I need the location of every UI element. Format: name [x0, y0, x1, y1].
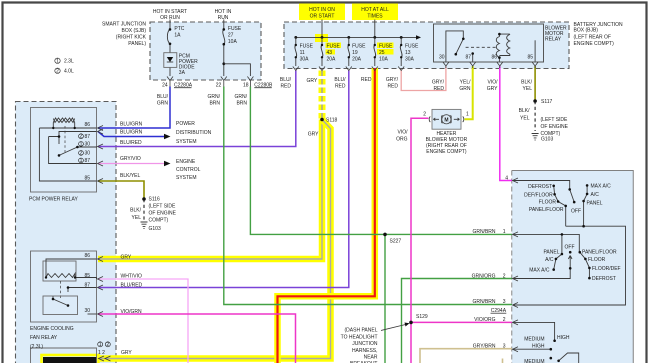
svg-text:BRN: BRN: [209, 101, 220, 107]
svg-text:GRY: GRY: [307, 78, 318, 84]
svg-text:3: 3: [503, 344, 506, 350]
svg-text:YEL: YEL: [520, 116, 530, 122]
svg-text:PTC: PTC: [174, 26, 184, 32]
svg-text:GRY/: GRY/: [432, 80, 445, 86]
svg-text:FUSE: FUSE: [327, 44, 341, 50]
svg-text:FAN RELAY: FAN RELAY: [30, 335, 58, 341]
svg-text:1: 1: [80, 158, 83, 164]
svg-text:G103: G103: [541, 137, 553, 143]
svg-text:1: 1: [99, 342, 102, 348]
svg-text:2: 2: [423, 112, 426, 118]
svg-text:FLOOR: FLOOR: [588, 257, 606, 263]
svg-text:GRN/BRN: GRN/BRN: [472, 299, 495, 305]
svg-text:BLK/YEL: BLK/YEL: [120, 173, 141, 179]
svg-text:HARNESS,: HARNESS,: [352, 348, 378, 354]
svg-text:GRY: GRY: [121, 350, 132, 356]
svg-text:WHT/VIO: WHT/VIO: [121, 274, 142, 280]
svg-text:PANEL: PANEL: [587, 201, 603, 207]
svg-text:GRN/: GRN/: [208, 94, 221, 100]
svg-text:YEL: YEL: [132, 215, 142, 221]
svg-text:HOT IN ON: HOT IN ON: [309, 7, 335, 13]
svg-text:85: 85: [84, 176, 90, 182]
svg-text:85: 85: [84, 273, 90, 279]
svg-text:87: 87: [84, 283, 90, 289]
svg-text:GRY/VIO: GRY/VIO: [120, 156, 141, 162]
svg-text:FUSE: FUSE: [300, 44, 314, 50]
svg-text:RED: RED: [433, 86, 444, 92]
svg-text:2: 2: [106, 342, 109, 348]
svg-text:VIO/: VIO/: [397, 130, 408, 136]
svg-text:FUSE: FUSE: [379, 44, 393, 50]
svg-text:3: 3: [503, 299, 506, 305]
svg-text:(LEFT SIDE: (LEFT SIDE: [149, 204, 177, 210]
svg-text:19: 19: [352, 50, 358, 56]
svg-text:30: 30: [84, 151, 90, 157]
svg-text:BLU/: BLU/: [157, 94, 169, 100]
svg-text:OR RUN: OR RUN: [160, 15, 180, 21]
svg-text:ENGINE COMPT): ENGINE COMPT): [426, 149, 467, 155]
svg-text:1A: 1A: [174, 33, 181, 39]
svg-text:HOT AT ALL: HOT AT ALL: [361, 7, 389, 13]
svg-text:PANEL/FLOOR: PANEL/FLOOR: [529, 207, 564, 213]
svg-text:ORG: ORG: [396, 137, 408, 143]
svg-text:30A: 30A: [300, 56, 310, 62]
svg-text:30: 30: [439, 55, 445, 61]
svg-text:2: 2: [80, 150, 83, 156]
svg-text:FLOOR/DEF: FLOOR/DEF: [592, 266, 621, 272]
svg-text:BRN: BRN: [236, 101, 247, 107]
svg-text:18: 18: [243, 83, 249, 89]
svg-text:OF ENGINE: OF ENGINE: [149, 211, 177, 217]
svg-text:GRY: GRY: [308, 132, 319, 138]
svg-text:S117: S117: [541, 99, 553, 105]
svg-text:20A: 20A: [327, 56, 337, 62]
svg-text:4: 4: [505, 175, 508, 181]
svg-text:20A: 20A: [352, 56, 362, 62]
svg-text:DISTRIBUTION: DISTRIBUTION: [176, 130, 212, 136]
svg-text:2: 2: [80, 134, 83, 140]
svg-text:MAX A/C: MAX A/C: [591, 184, 612, 190]
svg-text:ENGINE: ENGINE: [176, 159, 196, 165]
svg-text:(2.3L): (2.3L): [30, 344, 43, 350]
svg-text:1: 1: [56, 58, 59, 64]
svg-text:PCM POWER RELAY: PCM POWER RELAY: [29, 197, 78, 203]
svg-text:ENGINE COMPT): ENGINE COMPT): [574, 41, 615, 47]
svg-text:87: 87: [465, 55, 471, 61]
svg-text:2: 2: [503, 317, 506, 323]
svg-text:FUSE: FUSE: [405, 44, 419, 50]
svg-text:27: 27: [228, 33, 234, 39]
svg-text:GRY/: GRY/: [386, 77, 399, 83]
svg-text:HIGH: HIGH: [532, 343, 545, 349]
svg-text:10A: 10A: [379, 56, 389, 62]
svg-text:GRY: GRY: [121, 255, 132, 261]
svg-text:24: 24: [162, 83, 168, 89]
svg-text:GRY/BRN: GRY/BRN: [473, 344, 496, 350]
svg-text:3A: 3A: [179, 70, 186, 76]
svg-text:OF ENGINE: OF ENGINE: [541, 124, 569, 130]
svg-text:1: 1: [503, 229, 506, 235]
svg-text:M: M: [444, 118, 448, 124]
svg-text:BLU/GRN: BLU/GRN: [120, 130, 143, 136]
svg-text:S116: S116: [149, 197, 161, 203]
svg-text:GRN: GRN: [459, 86, 471, 92]
svg-text:87: 87: [84, 134, 90, 140]
svg-text:GRN/: GRN/: [235, 94, 248, 100]
svg-text:GRN/BRN: GRN/BRN: [472, 229, 495, 235]
svg-text:(LEFT SIDE: (LEFT SIDE: [541, 117, 569, 123]
svg-text:MEDIUM: MEDIUM: [524, 337, 544, 343]
svg-text:S118: S118: [326, 118, 338, 124]
svg-text:1: 1: [466, 112, 469, 118]
svg-text:87: 87: [84, 158, 90, 164]
svg-text:RED: RED: [280, 84, 291, 90]
svg-text:RELAY: RELAY: [545, 37, 562, 43]
svg-text:PANEL): PANEL): [128, 41, 146, 47]
svg-text:POWER: POWER: [176, 121, 195, 127]
svg-text:A/C: A/C: [591, 192, 600, 198]
svg-text:S129: S129: [416, 314, 428, 320]
svg-text:SYSTEM: SYSTEM: [176, 139, 197, 145]
svg-text:OFF: OFF: [571, 209, 581, 215]
svg-text:A/C: A/C: [545, 257, 554, 263]
svg-text:22: 22: [216, 83, 222, 89]
svg-text:NEAR: NEAR: [364, 355, 378, 361]
svg-text:S227: S227: [390, 239, 402, 245]
svg-text:BLU/: BLU/: [334, 77, 346, 83]
svg-text:2: 2: [56, 68, 59, 74]
svg-text:GRY: GRY: [487, 86, 498, 92]
svg-text:(DASH PANEL: (DASH PANEL: [345, 328, 378, 334]
svg-text:25: 25: [379, 50, 385, 56]
svg-text:1 2: 1 2: [98, 350, 105, 356]
svg-text:BLU/RED: BLU/RED: [120, 140, 142, 146]
svg-text:DEFROST: DEFROST: [528, 184, 552, 190]
svg-text:30: 30: [84, 142, 90, 148]
svg-text:10A: 10A: [228, 39, 238, 45]
svg-text:(LEFT REAR OF: (LEFT REAR OF: [574, 35, 611, 41]
svg-text:11: 11: [300, 50, 305, 56]
svg-text:VIO/GRN: VIO/GRN: [121, 309, 143, 315]
svg-text:RED: RED: [361, 77, 372, 83]
svg-text:COMPT): COMPT): [149, 218, 169, 224]
svg-text:13: 13: [405, 50, 411, 56]
svg-text:GRN/ORG: GRN/ORG: [472, 274, 496, 280]
svg-text:BOX (SJB): BOX (SJB): [122, 28, 147, 34]
svg-text:86: 86: [84, 122, 90, 128]
svg-text:MAX A/C: MAX A/C: [529, 268, 550, 274]
svg-text:VIO/: VIO/: [487, 80, 498, 86]
svg-text:BLK/: BLK/: [519, 108, 530, 114]
svg-text:BLU/GRN: BLU/GRN: [120, 121, 143, 127]
svg-text:FLOOR: FLOOR: [539, 200, 557, 206]
svg-text:YEL: YEL: [523, 86, 533, 92]
svg-text:TO HEADLIGHT: TO HEADLIGHT: [341, 334, 378, 340]
svg-text:JUNCTION: JUNCTION: [352, 341, 378, 347]
svg-text:RED: RED: [335, 84, 346, 90]
svg-text:RUN: RUN: [218, 15, 229, 21]
svg-text:CONTROL: CONTROL: [176, 167, 201, 173]
svg-text:RED: RED: [387, 84, 398, 90]
svg-text:YEL/: YEL/: [460, 80, 471, 86]
svg-text:BOX (BJB): BOX (BJB): [574, 28, 599, 34]
svg-text:1: 1: [80, 141, 83, 147]
svg-text:G103: G103: [149, 226, 161, 232]
svg-text:VIO/ORG: VIO/ORG: [474, 317, 496, 323]
svg-text:86: 86: [491, 55, 497, 61]
svg-text:DEFROST: DEFROST: [592, 276, 616, 282]
svg-text:GRN: GRN: [157, 101, 169, 107]
svg-text:ENGINE COOLING: ENGINE COOLING: [30, 326, 74, 332]
svg-text:PANEL/FLOOR: PANEL/FLOOR: [582, 250, 617, 256]
svg-text:FUSE: FUSE: [228, 26, 242, 32]
svg-text:BLU/: BLU/: [280, 77, 292, 83]
svg-text:SYSTEM: SYSTEM: [176, 175, 197, 181]
svg-text:HIGH: HIGH: [557, 335, 570, 341]
svg-text:SMART JUNCTION: SMART JUNCTION: [102, 22, 146, 28]
svg-text:43: 43: [327, 50, 333, 56]
svg-text:MEDIUM: MEDIUM: [524, 359, 544, 363]
svg-text:2: 2: [503, 274, 506, 280]
svg-text:TIMES: TIMES: [367, 14, 383, 20]
svg-text:85: 85: [527, 55, 533, 61]
svg-text:2.3L: 2.3L: [64, 59, 74, 65]
svg-text:DEF/FLOOR: DEF/FLOOR: [524, 193, 553, 199]
svg-text:(RIGHT KICK: (RIGHT KICK: [116, 35, 147, 41]
svg-text:OR START: OR START: [310, 14, 335, 20]
svg-text:BLU/RED: BLU/RED: [121, 283, 143, 289]
svg-text:OFF: OFF: [565, 245, 575, 251]
svg-text:BLK/: BLK/: [521, 80, 532, 86]
svg-text:30: 30: [84, 308, 90, 314]
svg-text:4.0L: 4.0L: [64, 69, 74, 75]
svg-text:BLK/: BLK/: [130, 208, 141, 214]
svg-text:86: 86: [84, 253, 90, 259]
svg-text:30A: 30A: [405, 56, 415, 62]
svg-text:FUSE: FUSE: [352, 44, 366, 50]
svg-text:PANEL: PANEL: [543, 250, 559, 256]
